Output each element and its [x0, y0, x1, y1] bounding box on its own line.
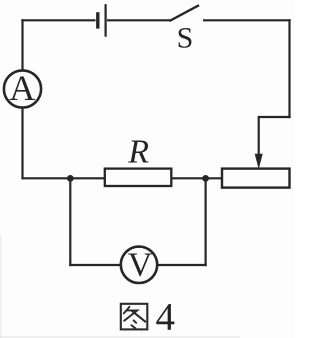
svg-text:S: S	[177, 22, 194, 55]
wire voltmeter loop bottom-left horizontal	[69, 264, 121, 266]
wire voltmeter loop left vertical	[69, 178, 71, 266]
wire voltmeter loop right vertical	[205, 178, 207, 266]
resistor R rectangle	[105, 169, 172, 186]
ammeter A1 circle	[4, 70, 41, 107]
battery: short thick negative plate	[96, 12, 99, 28]
wire ammeter to bottom-left corner	[21, 108, 23, 180]
voltmeter V1 circle	[121, 247, 157, 283]
wire wiper shaft	[258, 116, 260, 156]
wire voltmeter loop bottom-right horizontal	[157, 264, 207, 266]
faint scan artifacts	[0, 336, 240, 338]
wire bottom-left horizontal to R	[21, 177, 104, 179]
switch S lever	[170, 5, 200, 21]
caption glyph 图 (hand-drawn box enclosure)	[121, 304, 148, 330]
junction node right (R / rheostat / voltmeter)	[202, 175, 209, 182]
junction node left (R / voltmeter)	[67, 175, 74, 182]
wire left vertical (top corner to ammeter)	[21, 19, 23, 70]
wire right vertical	[288, 19, 290, 118]
wire battery to switch	[107, 19, 171, 21]
rheostat RP rectangle	[222, 169, 290, 188]
battery: long thin positive plate	[104, 4, 106, 37]
svg-text:V: V	[128, 247, 153, 284]
wire R to rheostat	[171, 177, 222, 179]
rheostat wiper arrowhead	[255, 154, 262, 167]
wire switch to top-right corner	[203, 19, 291, 21]
wire step left at y=117	[259, 116, 291, 118]
svg-text:R: R	[127, 133, 149, 170]
svg-text:4: 4	[155, 296, 175, 338]
svg-text:A: A	[9, 68, 35, 108]
wire top-left horizontal (to battery)	[21, 19, 95, 21]
